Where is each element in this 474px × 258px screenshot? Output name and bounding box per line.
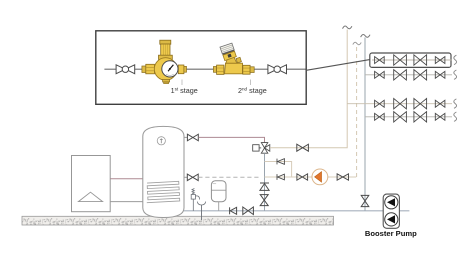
pressure gauge on U1 (162, 61, 178, 77)
row 2 valve B (394, 70, 407, 80)
row 3 break squiggle (454, 99, 457, 108)
wire recirc riser dashed (tan) (356, 44, 358, 178)
row 1 break squiggle (454, 55, 457, 64)
row 1 valve B (394, 55, 407, 65)
check valve on cold main (230, 207, 237, 214)
check valve vertical on riser (260, 183, 269, 190)
wire boiler flow (red) (110, 179, 147, 182)
ball valve inlet (116, 65, 135, 74)
row 2 valve C (414, 70, 427, 80)
manifold row 2 pipe (365, 74, 452, 76)
valve vertical on riser (gate) (260, 195, 268, 206)
row 4 valve D (gate) (435, 113, 445, 120)
manifold row 1 pipe (372, 59, 452, 61)
wire recirc branch upper (265, 162, 292, 178)
manifold row 4 pipe (365, 116, 452, 118)
safety group relief valve (191, 188, 199, 210)
tank thermometer (157, 137, 165, 145)
pressure reducing valve U2 2nd stage (213, 43, 254, 74)
storage tank T1 (143, 126, 184, 217)
safety group tundish funnel (197, 202, 205, 220)
pressure reducing valve U1 1st stage (142, 40, 187, 83)
valve tank hot outlet (gate) (184, 134, 198, 141)
recirculation pump P1 (312, 169, 328, 185)
pipe break squiggle recirc riser (353, 42, 361, 45)
wire cold feed riser (gray) (364, 38, 366, 211)
manifold row 3 pipe (347, 103, 452, 105)
ball valve outlet (268, 65, 287, 74)
wire boiler return (gray) (110, 201, 146, 203)
wire recirc branch lower (265, 176, 357, 178)
mixing valve 3-way with actuator (253, 143, 270, 154)
row 2 valve D (gate) (435, 71, 445, 78)
boiler (72, 156, 111, 212)
valve tank recirc inlet (gate) (184, 174, 198, 181)
tank heating coil (146, 181, 180, 202)
row 3 valve B (394, 99, 407, 109)
wire recirc return dashed into tank (198, 176, 261, 178)
check valve upper branch (277, 159, 284, 165)
wire cold riser below mixer (264, 153, 266, 211)
check valve lower branch (277, 174, 284, 180)
valve after pump (gate) (337, 174, 348, 180)
row 4 break squiggle (454, 112, 457, 121)
inset pipe segments (104, 68, 305, 70)
svg-text:Booster Pump: Booster Pump (365, 229, 417, 238)
callout detail box (96, 31, 306, 105)
pipe break squiggle cold riser (361, 35, 370, 38)
leader line 1st stage (181, 80, 183, 86)
pipe break squiggle mixed riser (343, 26, 352, 29)
ground strip (22, 216, 334, 225)
row 2 break squiggle (454, 70, 457, 79)
row 4 valve B (394, 112, 407, 122)
wire hot water (red) tank to mixer (198, 137, 264, 142)
valve vertical cold feed (gate) (361, 195, 369, 206)
valve before pump (gate) (297, 174, 308, 180)
valve on cold main (gate) (243, 207, 254, 215)
manifold row 1 highlight box (370, 53, 451, 67)
row 3 valve C (414, 99, 427, 109)
callout pointer line (306, 60, 370, 71)
booster pump set (383, 194, 399, 228)
row 4 valve C (414, 112, 427, 122)
row 1 valve A (gate) (375, 57, 385, 64)
row 1 valve C (414, 55, 427, 65)
wire cold main (blue) (180, 210, 409, 212)
row 4 valve A (gate) (375, 113, 385, 120)
leader line 2nd stage (250, 80, 252, 86)
row 3 valve A (gate) (375, 100, 385, 107)
row 3 valve D (gate) (435, 100, 445, 107)
row 1 valve D (gate) (435, 57, 445, 64)
expansion vessel (211, 181, 226, 211)
valve on mixed line (gate) (297, 144, 309, 151)
row 2 valve A (gate) (375, 71, 385, 78)
wire mixed water out (tan) (270, 30, 347, 148)
